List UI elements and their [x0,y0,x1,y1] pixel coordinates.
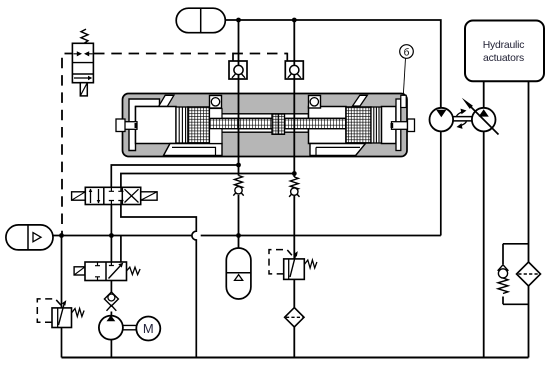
wire stub to valve V3 [120,236,122,263]
intensifier left bearing square [210,96,222,109]
reducing valve RV2 spring [304,260,317,268]
pilot valve PV1 drain plug [80,83,87,96]
pilot dashed line to check valves [94,53,287,55]
wire tank rail [62,357,529,359]
intensifier left rod guide blocks [210,109,223,144]
svg-text:Hydraulic: Hydraulic [483,40,525,51]
pilot operated check valve CV2 [285,61,303,79]
wire line2 block port B to valve V2 [121,174,294,188]
rotation arrows on shaft [457,109,467,129]
wire top rail [225,20,440,108]
accumulator AC2 horizontal [6,225,53,250]
bypass check valve CV4 [498,265,509,294]
intensifier left piston [188,107,210,143]
filter F2 [517,262,541,286]
solenoid valve V3 solenoid [74,267,85,275]
electric motor M [136,317,160,341]
relief valve RV1 spring [72,309,85,317]
wire filter bypass bars [503,244,529,304]
pilot valve PV1 spring [81,29,88,43]
intensifier left port tube [116,119,137,132]
intensifier left piston rings [176,107,188,143]
wire pump2 to actuators [483,82,485,358]
shaft between motor and pump [453,117,472,121]
variable displacement arrow [462,98,499,135]
intensifier right bearing square [309,96,321,109]
variable pump VP1 [472,108,496,132]
intensifier left bottom step [164,144,223,156]
spring check SC2 on node B [289,177,299,197]
label b circle [400,45,414,59]
wire line1 block port A to valve V2 [111,165,238,187]
wire actuators right drop [528,82,530,358]
directional valve V2 body [85,187,140,204]
wire vertical node A lower to accumulator [238,195,240,248]
intensifier block body [123,94,408,157]
check valve CV3 [104,292,118,311]
relief valve RV1 body [52,300,72,327]
intensifier rod coupling [272,114,285,134]
label b pointer line [403,58,405,95]
wire V2 left port down [110,205,112,263]
wire node B filter to tank rail [293,326,295,357]
intensifier right port tube [391,119,415,132]
intensifier left cylinder casing [129,99,160,151]
svg-text:M: M [143,321,154,336]
reducing valve RV2 body [284,251,305,279]
intensifier right bottom step [310,144,366,156]
wire pump P1 suction [110,281,112,358]
svg-text:б: б [404,46,410,58]
svg-text:actuators: actuators [483,53,524,64]
directional valve V2 solenoid left [72,192,86,200]
intensifier left slash cutaway [159,95,174,106]
intensifier right slash cutaway [353,95,368,106]
intensifier rod channel [222,114,309,132]
pilot operated check valve CV1 [229,61,247,79]
intensifier right end cap [396,99,401,151]
pilot stub to CV2 [286,53,288,61]
pilot stub to CV1 [232,53,234,61]
intensifier rod [210,118,347,128]
spring check SC1 on node A [233,176,243,196]
wire main pressure line [53,131,441,235]
hydraulic motor HM1 [430,108,454,132]
pilot valve PV1 body [72,43,93,82]
solenoid valve V3 spring [127,267,141,274]
wire vertical node A (x238.5) upper [238,20,240,176]
hydraulic actuators box [465,21,544,82]
relief valve RV1 pilot dashed [37,299,61,322]
accumulator AC3 vertical [226,248,251,299]
pump shaft [123,325,136,329]
reducing valve RV2 pilot dashed [269,250,293,274]
intensifier left chamber [136,107,177,144]
directional valve V2 solenoid right [141,192,157,200]
wire vertical node B (x294.3) upper [293,20,295,177]
pilot dashed line left drop [62,54,75,236]
intensifier right top notch [401,95,406,107]
wire V2 right port to tank with hop [121,205,196,358]
intensifier right head chamber [382,107,397,144]
wire left return line [61,236,63,358]
intensifier right piston [346,107,371,143]
wire node B below reducing valve [293,279,295,307]
filter F1 [285,308,304,327]
wire vertical node B lower [293,196,295,259]
pump P1 [99,315,123,339]
solenoid valve V3 body [85,262,127,281]
accumulator AC1 top [176,8,225,33]
intensifier right rod-side chamber [309,107,347,144]
intensifier right piston rings [371,107,382,143]
